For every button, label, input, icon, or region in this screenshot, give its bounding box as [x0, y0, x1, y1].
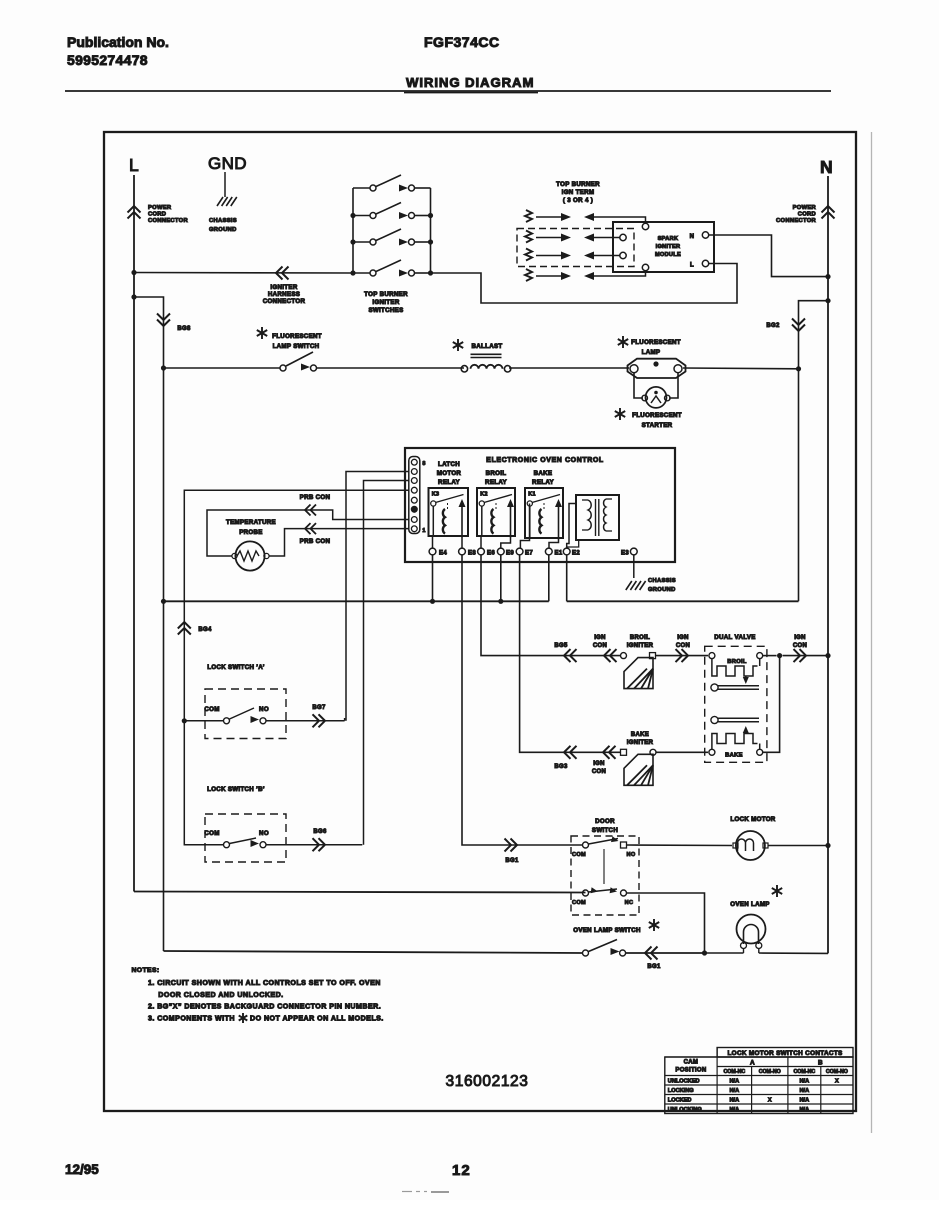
- svg-text:COM: COM: [572, 900, 586, 906]
- svg-text:N/A: N/A: [800, 1088, 810, 1094]
- power cord connector N: [776, 205, 834, 224]
- lock motor M1: [733, 831, 768, 860]
- svg-text:COM: COM: [204, 706, 219, 713]
- svg-text:A: A: [750, 1060, 755, 1067]
- svg-text:IGNITER: IGNITER: [656, 244, 681, 250]
- door switch enclosure: [571, 836, 639, 915]
- bake relay K1: [525, 488, 563, 540]
- igniter harness connector: [263, 267, 306, 306]
- svg-text:E3: E3: [621, 551, 629, 557]
- svg-text:X: X: [768, 1098, 772, 1104]
- wire main bus 601 left: [161, 599, 549, 604]
- dual valve broil plunger: [711, 684, 759, 691]
- wire E4 drop: [430, 555, 435, 604]
- wire E8 to door switch: [462, 555, 583, 846]
- label bake relay: [532, 470, 554, 486]
- label oven lamp switch: [573, 919, 659, 934]
- svg-text:N/A: N/A: [800, 1107, 810, 1113]
- svg-text:( 3 OR 4 ): ( 3 OR 4 ): [563, 197, 593, 204]
- svg-text:BAKE: BAKE: [534, 470, 553, 477]
- connector IGN CON broil right: [676, 635, 691, 662]
- node N: [820, 157, 833, 177]
- svg-text:CON: CON: [676, 643, 690, 649]
- label broil relay: [485, 470, 507, 486]
- svg-text:LOCKING: LOCKING: [668, 1088, 694, 1094]
- connector BG6: [313, 829, 327, 851]
- svg-text:K1: K1: [528, 492, 536, 498]
- terminal E4: [429, 548, 447, 556]
- svg-text:K2: K2: [480, 492, 488, 498]
- svg-text:NOTES:: NOTES:: [132, 967, 160, 974]
- wire E6 to broil igniter: [481, 555, 621, 656]
- svg-text:RELAY: RELAY: [438, 479, 460, 486]
- connector BG1 door: [505, 839, 519, 865]
- svg-text:PRB CON: PRB CON: [300, 494, 331, 501]
- fluorescent lamp: [628, 359, 686, 378]
- label temperature probe: [226, 519, 276, 536]
- wire transformer to E2: [567, 504, 579, 549]
- lock motor switch contacts table: [665, 1048, 853, 1114]
- connector IGN CON bake: [592, 746, 616, 775]
- lock switch B: [184, 721, 269, 848]
- svg-text:CORD: CORD: [798, 212, 816, 218]
- lock switch A: [182, 706, 269, 724]
- svg-text:E7: E7: [525, 551, 533, 557]
- terminal E3: [621, 548, 637, 556]
- svg-text:BG2: BG2: [766, 323, 780, 329]
- wire main bus 601 right: [567, 600, 799, 602]
- svg-text:BG4: BG4: [198, 627, 212, 633]
- label fluorescent lamp: [618, 336, 681, 356]
- connector BG2: [766, 319, 805, 332]
- connector BG5: [554, 643, 576, 662]
- wire igniter row 2: [588, 237, 620, 239]
- svg-text:COM-NO: COM-NO: [826, 1069, 848, 1075]
- ballast: [461, 354, 511, 372]
- svg-text:3. COMPONENTS WITH: 3. COMPONENTS WITH: [148, 1015, 235, 1023]
- svg-text:POWER: POWER: [148, 205, 172, 211]
- svg-text:LOCK SWITCH ’A’: LOCK SWITCH ’A’: [207, 664, 264, 671]
- wire igniter row 1: [588, 217, 646, 223]
- svg-text:N/A: N/A: [800, 1079, 810, 1085]
- svg-text:N/A: N/A: [730, 1079, 740, 1085]
- wire probe upper to eoc: [207, 510, 409, 556]
- svg-text:E9: E9: [506, 551, 514, 557]
- wire eoc pin3 to lock switch B: [364, 481, 409, 845]
- connector PRB CON upper: [300, 494, 331, 516]
- svg-text:BROIL: BROIL: [727, 659, 747, 665]
- svg-text:Publication No.: Publication No.: [67, 34, 169, 50]
- svg-text:BAKE: BAKE: [631, 732, 649, 738]
- svg-text:GND: GND: [208, 154, 247, 173]
- terminal E7: [516, 548, 533, 556]
- svg-text:N: N: [820, 157, 833, 177]
- svg-text:BG5: BG5: [554, 643, 568, 649]
- svg-text:5995274478: 5995274478: [67, 52, 148, 68]
- svg-text:TOP BURNER: TOP BURNER: [556, 181, 600, 188]
- lock switch B enclosure: [205, 814, 286, 862]
- svg-text:CHASSIS: CHASSIS: [209, 218, 237, 224]
- svg-text:STARTER: STARTER: [642, 422, 673, 429]
- svg-text:OVEN LAMP SWITCH: OVEN LAMP SWITCH: [573, 927, 641, 934]
- svg-text:IGN: IGN: [594, 635, 606, 641]
- svg-text:CON: CON: [592, 769, 606, 775]
- svg-text:COM: COM: [204, 830, 219, 837]
- svg-text:COM-NO: COM-NO: [759, 1069, 781, 1075]
- wire eoc pin4 to lock switches common: [184, 490, 408, 721]
- wire N to BG2 drop: [799, 298, 831, 601]
- svg-text:PRB CON: PRB CON: [300, 538, 331, 545]
- notes: [132, 967, 384, 1023]
- dual valve bake coil: [709, 726, 763, 759]
- connector BG8: [157, 314, 191, 333]
- svg-text:COM: COM: [572, 852, 586, 858]
- svg-text:E2: E2: [572, 551, 580, 557]
- dual valve broil coil: [709, 653, 763, 684]
- wire lock switch B to BG6: [266, 844, 362, 846]
- svg-text:LOCK SWITCH ’B’: LOCK SWITCH ’B’: [207, 786, 265, 793]
- broil igniter: [621, 653, 656, 689]
- terminal E1: [545, 548, 562, 556]
- latch motor relay K3: [429, 488, 469, 538]
- label ballast: [453, 339, 503, 351]
- svg-text:DOOR CLOSED AND UNLOCKED.: DOOR CLOSED AND UNLOCKED.: [158, 991, 283, 999]
- svg-text:UNLOCKED: UNLOCKED: [668, 1079, 700, 1085]
- svg-text:BG3: BG3: [554, 764, 568, 770]
- label oven lamp: [730, 885, 782, 908]
- svg-text:BG1: BG1: [647, 964, 661, 970]
- svg-text:FGF374CC: FGF374CC: [424, 34, 500, 50]
- terminal E9: [497, 548, 514, 556]
- spark igniter module: [613, 222, 714, 272]
- wire E9 drop: [498, 555, 503, 604]
- svg-text:BAKE: BAKE: [725, 753, 743, 759]
- svg-text:CONNECTOR: CONNECTOR: [263, 298, 306, 305]
- dual valve enclosure: [705, 634, 767, 762]
- label lock switch B: [207, 786, 265, 793]
- svg-text:CORD: CORD: [148, 212, 166, 218]
- door switch NC pole: [572, 887, 633, 906]
- wire door NC to lamp branch: [627, 893, 708, 956]
- bake igniter: [621, 749, 657, 785]
- svg-text:FLUORESCENT: FLUORESCENT: [632, 412, 682, 419]
- wire door NO to lock motor: [627, 844, 733, 847]
- connector BG4: [178, 622, 212, 635]
- footer page number: [452, 1162, 471, 1179]
- svg-text:TOP BURNER: TOP BURNER: [364, 291, 408, 298]
- svg-text:N/A: N/A: [730, 1107, 740, 1113]
- wire probe lower to eoc: [269, 529, 409, 556]
- svg-text:MODULE: MODULE: [655, 252, 681, 258]
- svg-text:LOCK MOTOR: LOCK MOTOR: [730, 816, 775, 823]
- svg-text:DOOR: DOOR: [595, 818, 615, 825]
- svg-text:POWER: POWER: [793, 205, 817, 211]
- svg-text:BROIL: BROIL: [486, 470, 507, 477]
- svg-text:1. CIRCUIT SHOWN WITH ALL CONT: 1. CIRCUIT SHOWN WITH ALL CONTROLS SET T…: [148, 979, 381, 987]
- svg-text:GROUND: GROUND: [209, 227, 237, 233]
- wire lock switch A to BG7: [266, 718, 345, 721]
- svg-text:BG8: BG8: [177, 326, 191, 332]
- transformer T1: [576, 495, 619, 540]
- connector BG3: [554, 746, 576, 770]
- svg-text:BG1: BG1: [505, 858, 519, 864]
- svg-text:12/95: 12/95: [65, 1162, 99, 1177]
- wire L bus: [134, 175, 586, 893]
- svg-text:CAM: CAM: [684, 1060, 699, 1066]
- connector IGN CON valve: [793, 635, 807, 662]
- label top burner ign term: [556, 181, 600, 204]
- svg-text:OVEN LAMP: OVEN LAMP: [730, 901, 769, 908]
- top burner igniter switches: [350, 175, 433, 277]
- svg-text:FLUORESCENT: FLUORESCENT: [631, 339, 681, 346]
- svg-text:IGN: IGN: [794, 635, 806, 641]
- wire E1 drop: [548, 555, 550, 602]
- wire bake igniter to valve: [656, 751, 708, 753]
- wire L to BG8 drop: [131, 294, 163, 951]
- label bake igniter: [627, 732, 654, 746]
- svg-text:IGNITER: IGNITER: [372, 299, 399, 306]
- svg-text:FLUORESCENT: FLUORESCENT: [272, 333, 322, 340]
- door switch mechanical link: [603, 849, 605, 884]
- footer date: [65, 1162, 99, 1177]
- connector IGN CON broil left: [593, 635, 617, 662]
- svg-text:E1: E1: [555, 551, 563, 557]
- svg-text:IGN TERM: IGN TERM: [562, 189, 595, 196]
- connector BG1 oven lamp switch: [645, 947, 661, 971]
- svg-text:SWITCHES: SWITCHES: [368, 307, 403, 314]
- label lock switch A: [207, 664, 264, 671]
- svg-text:ELECTRONIC OVEN CONTROL: ELECTRONIC OVEN CONTROL: [486, 457, 604, 464]
- footer marks: [402, 1191, 449, 1194]
- chassis ground E3: [626, 555, 676, 594]
- svg-text:SWITCH: SWITCH: [592, 827, 618, 834]
- svg-text:CON: CON: [593, 643, 607, 649]
- svg-text:SPARK: SPARK: [658, 236, 679, 242]
- eoc connector strip: [409, 457, 426, 535]
- svg-text:BG7: BG7: [312, 705, 326, 711]
- svg-text:NO: NO: [259, 830, 269, 837]
- connector BG7: [312, 705, 326, 727]
- svg-text:BALLAST: BALLAST: [472, 343, 503, 350]
- wire relay K2 pins: [481, 536, 511, 548]
- label lock motor: [730, 816, 775, 823]
- terminal E6: [478, 548, 496, 556]
- svg-text:HARNESS: HARNESS: [268, 291, 300, 298]
- fluorescent lamp switch: [280, 352, 317, 371]
- svg-text:LATCH: LATCH: [438, 461, 460, 468]
- svg-text:L: L: [690, 263, 694, 269]
- wire relay K1 pins: [520, 504, 558, 549]
- svg-text:RELAY: RELAY: [532, 479, 554, 486]
- svg-text:IGN: IGN: [677, 635, 689, 641]
- dual valve bake plunger: [711, 716, 759, 723]
- svg-text:1: 1: [422, 528, 425, 534]
- svg-text:8: 8: [422, 461, 425, 467]
- broil relay K2: [477, 488, 515, 538]
- terminal E8: [459, 548, 477, 556]
- wire spark module N to N bus: [709, 235, 831, 279]
- part number 316002123: [446, 1073, 529, 1090]
- wire oven lamp to N: [759, 952, 828, 954]
- svg-text:CHASSIS: CHASSIS: [648, 578, 676, 584]
- svg-text:NC: NC: [625, 900, 634, 906]
- svg-text:DO NOT APPEAR ON ALL MODELS.: DO NOT APPEAR ON ALL MODELS.: [250, 1015, 384, 1023]
- svg-text:K3: K3: [432, 492, 440, 498]
- svg-text:RELAY: RELAY: [485, 479, 507, 486]
- wire E2 drop: [566, 555, 568, 602]
- svg-text:B: B: [818, 1060, 823, 1067]
- svg-text:E6: E6: [487, 551, 495, 557]
- power cord connector L: [128, 205, 189, 224]
- svg-text:CONNECTOR: CONNECTOR: [776, 218, 816, 224]
- svg-text:2. BG”X” DENOTES BACKGUARD CON: 2. BG”X” DENOTES BACKGUARD CONNECTOR PIN…: [148, 1003, 381, 1011]
- wire E7 to bake igniter: [520, 555, 620, 753]
- svg-text:N/A: N/A: [730, 1088, 740, 1094]
- svg-text:NO: NO: [627, 852, 636, 858]
- svg-text:COM-NC: COM-NC: [793, 1069, 815, 1075]
- fluorescent starter: [634, 373, 678, 408]
- svg-text:IGNITER: IGNITER: [270, 284, 297, 291]
- svg-text:POSITION: POSITION: [675, 1068, 706, 1074]
- svg-text:E4: E4: [439, 551, 447, 557]
- dashed box igniter terms: [517, 229, 634, 267]
- label fluorescent lamp switch: [257, 327, 322, 350]
- wire switches to spark module L: [431, 264, 738, 304]
- svg-text:PROBE: PROBE: [239, 529, 263, 536]
- wire bottom bus: [164, 951, 744, 953]
- svg-text:WIRING DIAGRAM: WIRING DIAGRAM: [406, 75, 534, 90]
- svg-text:N/A: N/A: [730, 1098, 740, 1104]
- svg-text:DUAL VALVE: DUAL VALVE: [714, 634, 756, 641]
- svg-text:N/A: N/A: [800, 1098, 810, 1104]
- svg-text:IGNITER: IGNITER: [627, 643, 654, 649]
- wire valve commons to N: [763, 653, 831, 752]
- svg-text:COM-NC: COM-NC: [723, 1069, 745, 1075]
- wire eoc pin2 to lock switch A: [346, 472, 409, 721]
- wire N bus: [827, 176, 829, 953]
- svg-text:LAMP: LAMP: [642, 349, 661, 356]
- svg-text:CONNECTOR: CONNECTOR: [148, 218, 188, 224]
- door switch NO pole: [572, 836, 636, 858]
- svg-text:BROIL: BROIL: [630, 635, 650, 641]
- note asterisk: [239, 1013, 248, 1023]
- label fluorescent starter: [615, 408, 682, 429]
- top burner igniter terminals: [525, 210, 594, 281]
- wire igniter row 4: [588, 271, 646, 276]
- svg-text:LOCK MOTOR SWITCH CONTACTS: LOCK MOTOR SWITCH CONTACTS: [727, 1050, 843, 1057]
- oven lamp: [737, 915, 766, 954]
- wire broil igniter to valve: [656, 655, 709, 657]
- wire L to top burner switches: [131, 270, 353, 275]
- svg-text:GROUND: GROUND: [648, 587, 676, 593]
- svg-text:BG6: BG6: [313, 829, 327, 835]
- title wiring diagram: [65, 75, 831, 93]
- title publication no: [67, 34, 169, 68]
- svg-text:12: 12: [452, 1162, 471, 1179]
- svg-text:LAMP SWITCH: LAMP SWITCH: [273, 343, 320, 350]
- svg-text:CON: CON: [793, 643, 807, 649]
- label door switch: [592, 818, 618, 834]
- wire igniter row 3: [588, 255, 620, 257]
- chassis ground top: [209, 172, 237, 233]
- electronic oven control: [405, 448, 675, 562]
- svg-text:TEMPERATURE: TEMPERATURE: [226, 519, 276, 526]
- svg-text:NO: NO: [259, 706, 269, 713]
- temperature probe: [232, 541, 269, 570]
- svg-text:X: X: [835, 1079, 839, 1085]
- label top burner igniter switches: [364, 291, 408, 314]
- wire lock motor to N: [768, 843, 831, 848]
- node L: [129, 155, 139, 175]
- node GND: [208, 154, 247, 173]
- svg-text:N: N: [690, 234, 695, 240]
- wire relay K3 pins: [433, 536, 463, 548]
- svg-text:316002123: 316002123: [446, 1073, 529, 1090]
- label latch motor relay: [437, 461, 462, 486]
- svg-text:L: L: [129, 155, 139, 175]
- svg-text:UNLOCKING: UNLOCKING: [668, 1107, 702, 1113]
- svg-text:E8: E8: [468, 551, 476, 557]
- wire fluorescent branch: [161, 365, 801, 371]
- svg-text:IGNITER: IGNITER: [627, 740, 654, 746]
- label broil igniter: [627, 635, 654, 649]
- connector PRB CON lower: [300, 523, 331, 545]
- svg-text:IGN: IGN: [593, 761, 605, 767]
- lock switch A enclosure: [205, 689, 286, 739]
- oven lamp switch: [583, 940, 626, 957]
- title model FGF374CC: [424, 34, 500, 50]
- svg-text:LOCKED: LOCKED: [668, 1098, 692, 1104]
- svg-text:MOTOR: MOTOR: [437, 470, 462, 477]
- terminal E2: [563, 548, 580, 556]
